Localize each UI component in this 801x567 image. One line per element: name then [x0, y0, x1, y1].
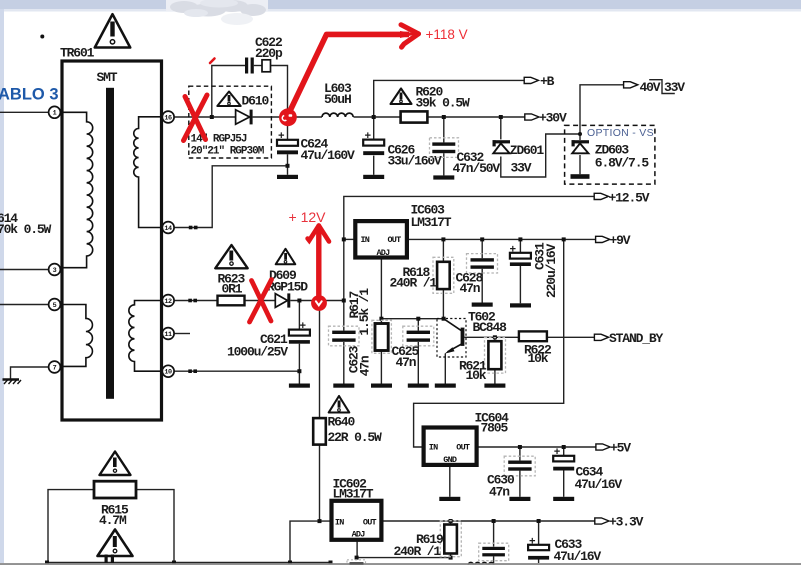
wire pin11 stub: [174, 333, 190, 335]
capacitor C633: [528, 536, 601, 564]
wire +5V rail: [477, 446, 596, 448]
junction midcap top: [492, 519, 496, 523]
svg-text:33V: 33V: [511, 161, 532, 176]
wire midcap stems: [493, 521, 495, 547]
wire pin7 to chassis ground: [11, 367, 49, 379]
junction D609 out: [297, 299, 301, 303]
svg-text:47u/160V: 47u/160V: [301, 148, 356, 163]
wire node to R640: [319, 301, 321, 419]
svg-text:50uH: 50uH: [324, 92, 351, 107]
wire pin14 rail: [174, 166, 287, 228]
svg-text:47n/50V: 47n/50V: [453, 161, 501, 176]
warning triangle R615 bottom: [98, 530, 133, 557]
svg-text:ABLO 3: ABLO 3: [0, 86, 59, 104]
svg-text:+12.5V: +12.5V: [609, 191, 650, 206]
resistor R621: [459, 338, 506, 388]
wire C625 stems: [417, 319, 419, 331]
wire IC604 gnd: [449, 465, 451, 497]
wire R618 stems: [442, 239, 444, 261]
capacitor C626: [363, 131, 442, 179]
warning triangle D610: [217, 92, 240, 107]
zener ZD601: [493, 140, 545, 175]
svg-text:14" RGPJ5J: 14" RGPJ5J: [191, 134, 247, 146]
svg-text:ADJ: ADJ: [377, 248, 391, 258]
wire ZD603 stems: [579, 134, 581, 140]
capacitor C624: [277, 131, 355, 179]
svg-text:70k 0.5W: 70k 0.5W: [0, 222, 52, 237]
svg-text:47u/16V: 47u/16V: [554, 549, 602, 564]
diode D609: [267, 268, 308, 308]
pads pin12 wire: [188, 299, 192, 303]
svg-text:6.8V/7.5: 6.8V/7.5: [595, 156, 650, 171]
junction T602 collector: [442, 317, 446, 321]
ground C623: [333, 384, 354, 388]
diode D610: [236, 94, 270, 125]
warning triangle D609: [276, 249, 296, 264]
pin 10: [162, 365, 174, 377]
svg-text:IN: IN: [429, 443, 438, 453]
junction IC603 in tee: [342, 237, 346, 241]
svg-text:220p: 220p: [255, 46, 283, 61]
svg-text:220u/16V: 220u/16V: [544, 243, 559, 298]
warning triangle R623: [215, 245, 247, 268]
ground C631: [510, 303, 531, 307]
svg-text:10k: 10k: [528, 351, 549, 366]
svg-text:OPTION - VS: OPTION - VS: [587, 127, 654, 139]
arrow 12V: [316, 226, 321, 297]
page top band: [0, 0, 801, 9]
svg-text:7: 7: [53, 364, 57, 372]
red +12V node arrow: [289, 209, 330, 311]
ground C626: [363, 175, 384, 179]
svg-text:+B: +B: [540, 74, 555, 89]
svg-text:240R /1: 240R /1: [390, 276, 438, 291]
junction 7805 feed top: [562, 237, 566, 241]
svg-text:OUT: OUT: [388, 235, 402, 245]
svg-text:7805: 7805: [481, 421, 509, 436]
svg-text:ADJ: ADJ: [352, 529, 366, 539]
stray dot: [40, 35, 44, 39]
warning triangle R640: [329, 396, 350, 413]
pin 1: [49, 106, 61, 118]
wire C631 stem: [519, 239, 521, 252]
svg-text:+118 V: +118 V: [426, 27, 468, 42]
svg-text:IN: IN: [361, 235, 370, 245]
svg-text:40V: 40V: [640, 80, 661, 95]
chassis ground: [3, 380, 22, 385]
svg-text:20"21" RGP30M: 20"21" RGP30M: [191, 146, 265, 158]
red X over D610: [184, 95, 208, 141]
wire 7805 feed: [414, 239, 564, 447]
svg-text:47n: 47n: [460, 281, 481, 296]
ground C621: [289, 384, 310, 388]
red X over D609 area: [250, 280, 272, 323]
wire IC602 adj rail: [357, 540, 451, 558]
capacitor C621: [227, 321, 310, 388]
svg-text:RGP15D: RGP15D: [267, 280, 308, 295]
wire ZD601 branch: [500, 117, 502, 139]
svg-text:LM317T: LM317T: [333, 487, 374, 502]
dashed box OPTION-VS: [565, 125, 655, 184]
output arrow +B: [524, 77, 538, 83]
pads pin14 wire: [189, 226, 193, 230]
junction C624 pin14: [286, 164, 290, 168]
svg-text:OUT: OUT: [363, 517, 377, 527]
svg-text:+ 12V: + 12V: [289, 209, 327, 225]
junction R640 bottom: [318, 519, 322, 523]
svg-text:GND: GND: [443, 455, 457, 465]
svg-text:0R1: 0R1: [222, 282, 243, 297]
output arrow 40V/33V: [624, 82, 638, 88]
wire C626 stem: [373, 117, 375, 140]
capacitor C634: [553, 447, 622, 501]
ground T602 emitter: [435, 384, 456, 388]
cloud smudges: [166, 0, 268, 11]
wire R621 stems: [494, 337, 496, 341]
output arrow +9V: [596, 236, 610, 242]
junction C633 top: [537, 519, 541, 523]
svg-text:240R /1: 240R /1: [394, 544, 442, 559]
svg-text:16: 16: [164, 114, 172, 122]
pin 16: [162, 111, 174, 123]
node 12V: [311, 295, 327, 311]
svg-text:BC848: BC848: [473, 320, 508, 335]
resistor R615: [94, 481, 136, 528]
ground C632: [433, 175, 454, 179]
junction R619 top: [449, 519, 453, 523]
svg-text:+30V: +30V: [539, 111, 567, 126]
svg-text:+3.3V: +3.3V: [609, 515, 644, 530]
ground C628: [472, 303, 493, 307]
svg-text:STAND_BY: STAND_BY: [609, 331, 664, 346]
resistor R620: [401, 85, 470, 123]
svg-text:D610: D610: [242, 94, 270, 109]
svg-text:12: 12: [164, 298, 172, 306]
wire T602 emitter: [444, 354, 446, 384]
capacitor C625: [392, 326, 434, 388]
junction C634 top: [562, 445, 566, 449]
wire C633 stems: [538, 521, 540, 545]
capacitor C628: [456, 254, 498, 307]
junction rail pads: [45, 561, 49, 565]
wire +3.3V rail: [381, 520, 594, 522]
svg-text:33V: 33V: [664, 80, 685, 95]
wire 40V branch: [580, 85, 624, 134]
svg-text:TR601: TR601: [60, 46, 95, 61]
partial label circles: [468, 562, 494, 567]
pin 12: [162, 295, 174, 307]
series box after C622: [262, 60, 271, 72]
wire C622 branch: [212, 66, 245, 118]
wire C630 stems: [519, 447, 521, 460]
ground C624: [277, 175, 298, 179]
warning triangle R620: [391, 89, 412, 105]
junction R621 top: [493, 335, 497, 339]
warning triangle above TR601: [95, 14, 130, 47]
junction C621 bottom: [297, 369, 301, 373]
zener ZD603: [571, 140, 650, 179]
wire +B branch: [374, 80, 526, 117]
wire main rail y117: [174, 116, 235, 118]
svg-text:47n: 47n: [396, 355, 417, 370]
svg-text:33u/160V: 33u/160V: [388, 154, 443, 169]
regulator IC602: [332, 477, 382, 540]
svg-text:10k: 10k: [466, 368, 487, 383]
tiny component at ADJ bottom: [347, 560, 366, 567]
winding pin12-pin10: [129, 301, 162, 372]
svg-text:47n: 47n: [358, 355, 373, 376]
pin 3: [49, 264, 61, 276]
wire pin1 from left: [0, 111, 49, 113]
wire +9V rail: [407, 238, 596, 240]
svg-text:11: 11: [164, 331, 172, 339]
svg-text:OUT: OUT: [456, 443, 470, 453]
ground C630: [509, 497, 530, 501]
svg-text:3: 3: [53, 267, 57, 275]
wire R619 top: [450, 521, 452, 525]
junction C628 top: [480, 237, 484, 241]
bottom window border: [0, 563, 801, 565]
transistor T602: [435, 310, 507, 388]
output arrow +3.3V: [595, 518, 609, 524]
ground IC604: [439, 497, 460, 501]
wire R615 loop: [48, 490, 94, 563]
junction C632: [442, 115, 446, 119]
output arrow +5V: [596, 444, 610, 450]
small red tick: [210, 59, 215, 64]
red arrow 118V: [210, 25, 468, 113]
ground C634: [553, 497, 574, 501]
resistor R619: [394, 521, 462, 559]
wire +12.5V rail: [344, 196, 594, 300]
wire bottom rail: [47, 562, 331, 564]
transformer core: [106, 88, 114, 399]
junction C622 tap: [210, 115, 214, 119]
wire C628 stem: [481, 239, 483, 258]
svg-text:+9V: +9V: [610, 233, 631, 248]
transformer TR601 box: [62, 61, 162, 420]
page left strip: [0, 9, 4, 563]
junction ADJ bottom: [355, 556, 359, 560]
junction R618 top: [441, 237, 445, 241]
junction ZD601: [499, 115, 503, 119]
capacitor C631: [510, 242, 560, 307]
wire C623 stems: [343, 301, 345, 331]
regulator IC604: [424, 411, 510, 502]
junction C623 tap: [342, 299, 346, 303]
wire C634 stems: [563, 447, 565, 456]
wire pin10 rail: [174, 370, 299, 372]
svg-text:1000u/25V: 1000u/25V: [227, 345, 288, 360]
junction C631 top: [518, 237, 522, 241]
svg-text:LM317T: LM317T: [411, 215, 452, 230]
wire pin12 rail: [174, 300, 217, 302]
warning triangle R615 top: [100, 452, 131, 476]
resistor R618: [390, 257, 454, 293]
wire pin3 from left: [0, 269, 49, 271]
wire transistor base rail: [464, 336, 519, 338]
junction C625 top: [416, 317, 420, 321]
wire C624 stems: [287, 117, 289, 140]
junction ZD603 node: [578, 132, 582, 136]
wire IC603 in: [344, 238, 356, 240]
svg-text:47n: 47n: [489, 485, 510, 500]
svg-text:10: 10: [164, 369, 172, 377]
winding pin1-pin3: [63, 112, 93, 267]
ground C625: [408, 384, 429, 388]
inductor L603: [322, 81, 353, 117]
resistor R617 rotated labels: [347, 288, 392, 388]
wire ADJ rail IC603: [380, 258, 382, 323]
wire R617 bottom: [380, 351, 382, 384]
svg-text:IN: IN: [335, 517, 344, 527]
wire C632 stem: [443, 117, 445, 142]
svg-text:1: 1: [53, 110, 57, 118]
pin 14: [162, 222, 174, 234]
svg-text:14: 14: [164, 225, 172, 233]
pin 11: [162, 328, 174, 340]
pin 5: [49, 299, 61, 311]
pin 7: [49, 361, 61, 373]
pads pin10 wire: [188, 369, 192, 373]
junction C630 top: [518, 445, 522, 449]
resistor R623: [218, 272, 246, 306]
resistor R640: [313, 415, 382, 446]
ground R621: [484, 384, 505, 388]
winding pin5-pin7: [63, 305, 92, 367]
wire IC602 in: [290, 521, 332, 562]
capacitor C623: [329, 326, 373, 388]
output arrow +12.5V: [594, 193, 608, 199]
wire C621 stems: [298, 301, 300, 330]
junction +B / C626: [372, 115, 376, 119]
wire pin5 from left: [0, 304, 49, 306]
svg-text:22R 0.5W: 22R 0.5W: [328, 430, 383, 445]
svg-text:4.7M: 4.7M: [99, 513, 127, 528]
op-amp regulator IC603: [355, 203, 451, 258]
capacitor in bottom rail: [105, 555, 115, 564]
output arrow +30V: [525, 114, 539, 120]
dashed box D610: [189, 86, 272, 158]
resistor R622: [519, 331, 552, 366]
border overlay: [0, 565, 801, 567]
svg-text:47u/16V: 47u/16V: [575, 477, 623, 492]
svg-text:R640: R640: [328, 415, 356, 430]
svg-text:39k 0.5W: 39k 0.5W: [416, 96, 471, 111]
winding pin16-pin14: [134, 117, 162, 228]
capacitor C622: [245, 35, 283, 74]
junction ADJ/R617: [379, 317, 383, 321]
junction R619 bottom: [449, 556, 453, 560]
capacitor C6xx mid: [468, 543, 509, 567]
svg-text:5: 5: [53, 302, 57, 310]
output arrow STAND_BY: [594, 334, 608, 340]
svg-text:ZD601: ZD601: [510, 143, 545, 158]
ground R617: [371, 384, 392, 388]
capacitor C630: [487, 456, 535, 501]
red node 118V: [279, 108, 297, 126]
capacitor C632: [430, 138, 501, 180]
svg-text:+5V: +5V: [610, 441, 631, 456]
svg-text:SMT: SMT: [97, 70, 118, 85]
